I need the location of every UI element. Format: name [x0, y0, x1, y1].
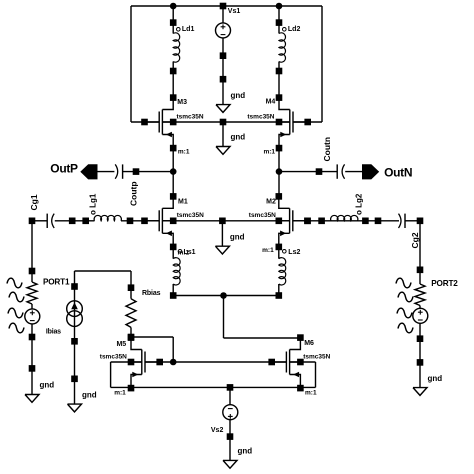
svg-text:OutN: OutN	[384, 166, 412, 180]
svg-text:tsmc35N: tsmc35N	[177, 212, 204, 219]
svg-text:Rbias: Rbias	[142, 290, 161, 297]
svg-text:Ld2: Ld2	[288, 26, 301, 33]
svg-text:OutP: OutP	[50, 162, 78, 176]
svg-text:PORT2: PORT2	[431, 279, 458, 288]
svg-text:tsmc35N: tsmc35N	[247, 113, 274, 120]
svg-text:Cg1: Cg1	[29, 194, 39, 210]
svg-text:Vs2: Vs2	[211, 427, 224, 434]
svg-text:tsmc35N: tsmc35N	[100, 354, 127, 361]
svg-text:gnd: gnd	[230, 232, 245, 241]
svg-text:gnd: gnd	[428, 374, 443, 383]
svg-text:Ld1: Ld1	[182, 26, 195, 33]
svg-text:o Lg1: o Lg1	[89, 193, 98, 215]
svg-text:M3: M3	[177, 99, 187, 106]
svg-text:m:1: m:1	[262, 247, 274, 254]
svg-text:M5: M5	[116, 341, 126, 348]
svg-text:tsmc35N: tsmc35N	[303, 354, 330, 361]
svg-text:gnd: gnd	[40, 381, 55, 390]
svg-text:Ls2: Ls2	[288, 249, 300, 256]
svg-text:Coutn: Coutn	[322, 137, 332, 162]
svg-text:m:1: m:1	[114, 390, 126, 397]
svg-text:M2: M2	[266, 198, 276, 205]
svg-text:m:1: m:1	[263, 149, 275, 156]
svg-text:Ls1: Ls1	[184, 249, 196, 256]
svg-text:PORT1: PORT1	[43, 278, 70, 287]
svg-text:tsmc35N: tsmc35N	[177, 113, 204, 120]
svg-text:Vs1: Vs1	[228, 8, 241, 15]
svg-text:gnd: gnd	[231, 91, 246, 100]
svg-text:m:1: m:1	[178, 149, 190, 156]
svg-text:m:1: m:1	[305, 390, 317, 397]
svg-text:M6: M6	[304, 340, 314, 347]
svg-text:gnd: gnd	[82, 390, 97, 399]
svg-text:o Lg2: o Lg2	[355, 193, 364, 215]
svg-text:gnd: gnd	[231, 133, 246, 142]
svg-text:Cg2: Cg2	[410, 232, 420, 248]
svg-text:tsmc35N: tsmc35N	[249, 212, 276, 219]
svg-text:Coutp: Coutp	[129, 181, 139, 206]
svg-text:M1: M1	[178, 198, 188, 205]
svg-text:Ibias: Ibias	[46, 329, 61, 336]
svg-text:M4: M4	[266, 99, 276, 106]
svg-text:gnd: gnd	[238, 447, 253, 456]
